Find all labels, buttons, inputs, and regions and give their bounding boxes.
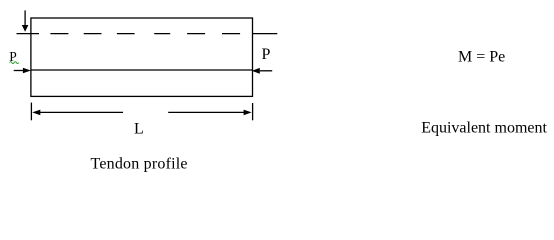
prestress force arrow P left (pointing right) (14, 68, 31, 74)
tendon line (solid, at mid-depth) (31, 69, 253, 71)
svg-text:P: P (262, 46, 271, 63)
centroidal axis right extension tick (253, 33, 278, 35)
centroidal axis dashed line (50, 33, 240, 35)
centroidal axis left tick (17, 33, 40, 35)
span dimension arrow left (32, 110, 123, 116)
svg-text:Tendon profile: Tendon profile (91, 155, 188, 172)
prestress force arrow P right (pointing left) (252, 68, 273, 74)
grammar squiggle under left P (10, 62, 19, 64)
eccentricity pointer arrow (down) (22, 10, 29, 31)
svg-text:M = Pe: M = Pe (458, 49, 505, 66)
span dimension arrow right (168, 110, 251, 116)
svg-text:Equivalent moment: Equivalent moment (421, 119, 547, 136)
span dimension left tick (30, 103, 32, 121)
svg-text:L: L (134, 120, 144, 137)
beam outline rectangle (31, 18, 253, 96)
span dimension right tick (252, 103, 254, 120)
